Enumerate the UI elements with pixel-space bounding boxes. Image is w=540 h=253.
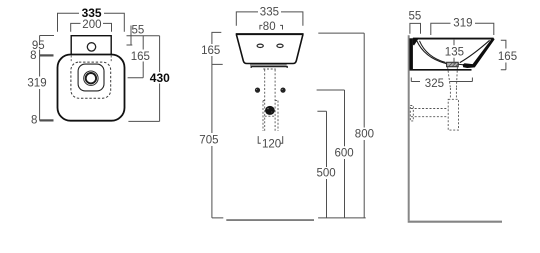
svg-text:165: 165 xyxy=(201,45,220,57)
svg-text:705: 705 xyxy=(199,135,218,147)
svg-text:55: 55 xyxy=(409,11,422,23)
svg-text:55: 55 xyxy=(132,24,145,36)
svg-text:319: 319 xyxy=(27,78,46,90)
svg-text:335: 335 xyxy=(260,7,279,19)
svg-text:319: 319 xyxy=(453,17,472,29)
svg-text:120: 120 xyxy=(262,139,281,151)
svg-text:8: 8 xyxy=(30,50,36,62)
svg-text:500: 500 xyxy=(317,168,336,180)
svg-text:135: 135 xyxy=(445,47,464,59)
svg-text:430: 430 xyxy=(150,71,170,85)
svg-text:8: 8 xyxy=(31,114,37,126)
svg-text:165: 165 xyxy=(498,51,517,63)
svg-text:325: 325 xyxy=(425,78,444,90)
svg-text:165: 165 xyxy=(131,51,150,63)
svg-text:600: 600 xyxy=(335,148,354,160)
svg-text:200: 200 xyxy=(82,19,101,31)
svg-text:80: 80 xyxy=(263,21,276,33)
svg-text:800: 800 xyxy=(355,129,374,141)
